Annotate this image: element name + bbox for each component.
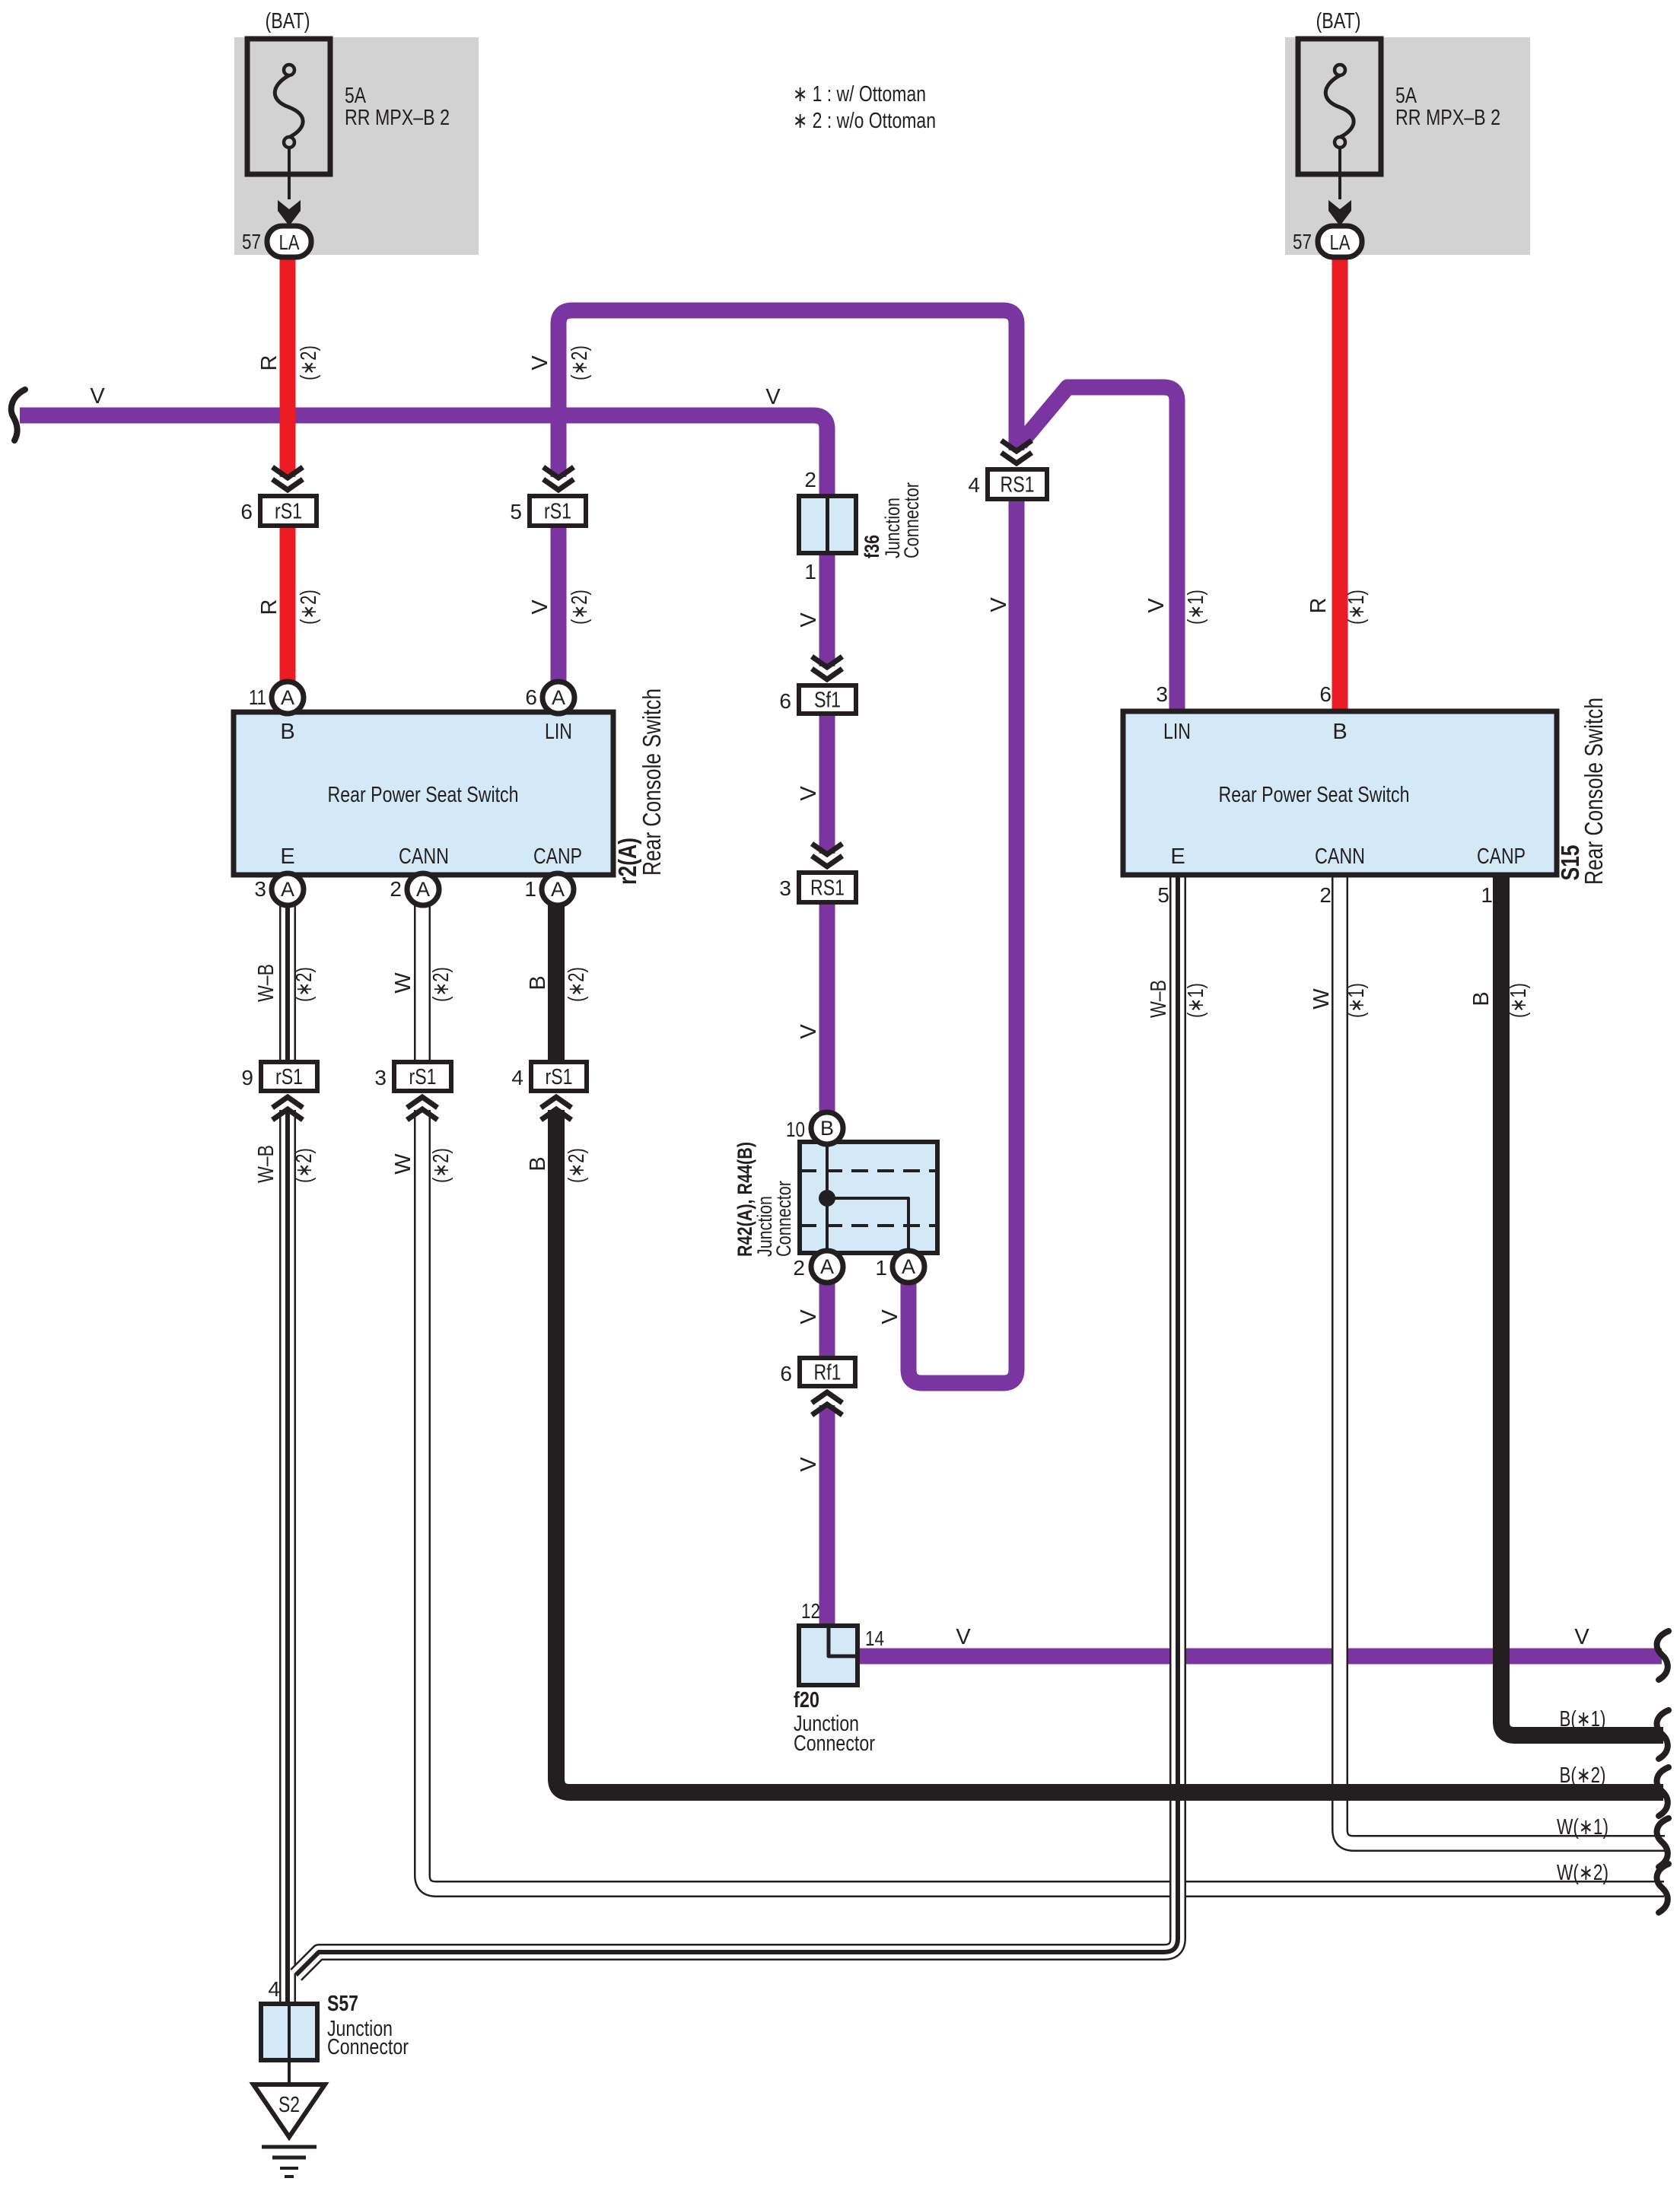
svg-text:1: 1	[524, 877, 536, 901]
svg-text:W–B: W–B	[254, 964, 278, 1002]
svg-text:V: V	[797, 1024, 821, 1039]
svg-text:W–B: W–B	[254, 1145, 278, 1183]
svg-text:W(∗1): W(∗1)	[1557, 1815, 1608, 1840]
svg-text:B: B	[526, 975, 550, 990]
svg-text:(∗1): (∗1)	[1344, 590, 1369, 625]
svg-text:Connector: Connector	[900, 482, 923, 558]
svg-text:14: 14	[865, 1627, 884, 1650]
svg-text:E: E	[280, 844, 294, 869]
svg-text:(∗2): (∗2)	[565, 967, 589, 1002]
svg-text:V: V	[90, 384, 105, 409]
svg-text:V: V	[797, 612, 821, 628]
svg-text:rS1: rS1	[546, 1065, 573, 1089]
svg-text:Connector: Connector	[772, 1181, 795, 1257]
svg-text:CANP: CANP	[533, 844, 582, 869]
svg-text:RS1: RS1	[810, 876, 845, 901]
svg-text:R: R	[1306, 598, 1331, 614]
svg-text:Rear Power Seat Switch: Rear Power Seat Switch	[328, 783, 519, 807]
svg-text:R: R	[257, 355, 282, 371]
svg-text:(∗2): (∗2)	[292, 1148, 317, 1183]
svg-text:V: V	[528, 355, 552, 370]
svg-text:V: V	[1144, 598, 1169, 613]
svg-text:5: 5	[510, 500, 522, 523]
svg-text:2: 2	[804, 468, 816, 491]
svg-text:57: 57	[1293, 230, 1312, 253]
svg-text:5A: 5A	[345, 84, 367, 108]
svg-text:(∗1): (∗1)	[1507, 983, 1531, 1018]
svg-text:rS1: rS1	[275, 500, 302, 524]
svg-text:2: 2	[390, 877, 402, 901]
svg-text:Rf1: Rf1	[814, 1361, 842, 1385]
svg-text:Connector: Connector	[327, 2035, 409, 2059]
svg-text:(BAT): (BAT)	[1316, 9, 1361, 33]
svg-text:S2: S2	[278, 2093, 300, 2117]
svg-text:(∗2): (∗2)	[297, 590, 321, 625]
svg-text:10: 10	[786, 1118, 805, 1141]
svg-text:R: R	[257, 599, 282, 615]
svg-text:11: 11	[249, 685, 266, 709]
svg-text:5: 5	[1157, 883, 1169, 907]
svg-text:6: 6	[1319, 682, 1332, 706]
svg-text:LA: LA	[1330, 231, 1351, 254]
svg-text:1: 1	[875, 1256, 887, 1280]
svg-text:CANN: CANN	[1315, 844, 1365, 869]
svg-text:V: V	[1574, 1625, 1589, 1649]
svg-text:A: A	[281, 686, 294, 709]
svg-text:3: 3	[1156, 682, 1168, 706]
svg-text:rS1: rS1	[544, 500, 571, 524]
svg-text:V: V	[528, 599, 552, 615]
svg-text:4: 4	[968, 473, 980, 497]
svg-text:3: 3	[254, 877, 266, 901]
svg-text:3: 3	[779, 876, 791, 900]
svg-text:A: A	[416, 878, 430, 901]
svg-text:6: 6	[240, 500, 253, 523]
svg-text:f20: f20	[794, 1688, 819, 1712]
svg-text:S57: S57	[327, 1992, 358, 2016]
svg-text:B: B	[526, 1156, 550, 1171]
svg-text:(BAT): (BAT)	[266, 9, 310, 33]
svg-text:V: V	[765, 385, 781, 409]
svg-text:V: V	[797, 1457, 821, 1472]
svg-text:Rear Console Switch: Rear Console Switch	[638, 688, 666, 876]
svg-text:6: 6	[779, 689, 791, 713]
svg-text:W: W	[391, 1153, 415, 1175]
svg-text:W: W	[391, 972, 415, 994]
svg-text:rS1: rS1	[275, 1065, 303, 1089]
svg-text:∗ 1 : w/ Ottoman: ∗ 1 : w/ Ottoman	[793, 82, 926, 107]
svg-text:(∗1): (∗1)	[1184, 590, 1208, 625]
svg-text:B: B	[1332, 720, 1347, 744]
svg-text:RR MPX–B 2: RR MPX–B 2	[1395, 106, 1500, 130]
svg-text:(∗2): (∗2)	[568, 345, 592, 380]
svg-text:9: 9	[241, 1066, 253, 1089]
svg-text:RR MPX–B 2: RR MPX–B 2	[345, 106, 450, 130]
svg-text:(∗2): (∗2)	[429, 967, 453, 1002]
svg-text:12: 12	[801, 1599, 820, 1623]
svg-text:V: V	[987, 597, 1011, 612]
svg-text:4: 4	[511, 1066, 523, 1089]
svg-text:V: V	[878, 1309, 902, 1324]
svg-text:B: B	[1469, 991, 1494, 1006]
svg-text:6: 6	[780, 1362, 792, 1385]
svg-text:W(∗2): W(∗2)	[1557, 1861, 1608, 1885]
svg-text:Rear Console Switch: Rear Console Switch	[1580, 698, 1608, 885]
svg-text:V: V	[797, 1309, 821, 1324]
svg-text:CANN: CANN	[399, 844, 449, 869]
svg-text:B: B	[280, 720, 294, 744]
svg-text:4: 4	[268, 1977, 280, 2001]
svg-text:(∗2): (∗2)	[565, 1148, 589, 1183]
svg-text:A: A	[820, 1255, 834, 1278]
svg-text:B(∗2): B(∗2)	[1560, 1763, 1606, 1788]
svg-text:(∗1): (∗1)	[1184, 983, 1208, 1018]
svg-text:f36: f36	[861, 535, 883, 558]
svg-text:3: 3	[374, 1066, 387, 1089]
svg-text:A: A	[902, 1255, 915, 1278]
svg-text:V: V	[797, 786, 821, 801]
svg-text:LIN: LIN	[545, 720, 572, 744]
svg-text:6: 6	[525, 685, 537, 709]
svg-text:B: B	[820, 1117, 834, 1140]
svg-text:rS1: rS1	[409, 1065, 437, 1089]
svg-text:V: V	[956, 1625, 971, 1649]
svg-text:E: E	[1170, 844, 1185, 869]
svg-text:Connector: Connector	[794, 1731, 875, 1756]
svg-text:(∗2): (∗2)	[568, 590, 592, 625]
svg-text:5A: 5A	[1395, 84, 1417, 108]
svg-text:A: A	[552, 686, 565, 709]
svg-text:A: A	[281, 878, 294, 901]
svg-text:B(∗1): B(∗1)	[1560, 1707, 1606, 1731]
svg-text:(∗2): (∗2)	[292, 967, 317, 1002]
svg-text:1: 1	[804, 560, 816, 584]
svg-text:(∗2): (∗2)	[297, 345, 321, 380]
svg-text:W–B: W–B	[1147, 980, 1171, 1018]
svg-text:∗ 2 : w/o Ottoman: ∗ 2 : w/o Ottoman	[793, 109, 936, 133]
svg-text:LA: LA	[279, 231, 300, 254]
svg-text:A: A	[551, 878, 565, 901]
svg-text:LIN: LIN	[1163, 720, 1191, 744]
svg-text:Rear Power Seat Switch: Rear Power Seat Switch	[1219, 783, 1410, 807]
svg-text:57: 57	[242, 230, 261, 253]
svg-text:W: W	[1309, 988, 1334, 1010]
svg-text:2: 2	[1319, 883, 1332, 907]
svg-text:CANP: CANP	[1477, 844, 1526, 869]
svg-text:RS1: RS1	[1001, 473, 1035, 498]
svg-text:2: 2	[793, 1256, 805, 1280]
svg-text:(∗1): (∗1)	[1344, 983, 1369, 1018]
svg-text:1: 1	[1481, 883, 1493, 907]
svg-text:(∗2): (∗2)	[429, 1148, 453, 1183]
svg-text:Sf1: Sf1	[814, 688, 841, 713]
